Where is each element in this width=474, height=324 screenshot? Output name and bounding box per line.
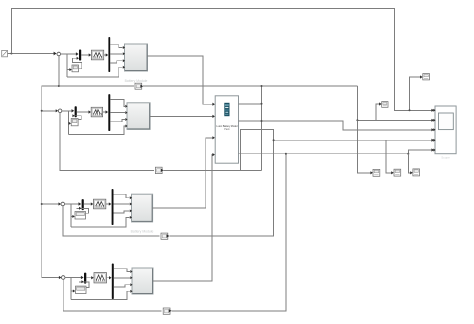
wire D1 out1	[110, 45, 123, 48]
wire D1 out2	[110, 53, 123, 55]
wire J1 to mux M1	[61, 52, 79, 55]
wire tap1 bus	[143, 85, 357, 87]
goto tag GC1	[373, 169, 380, 176]
wire port4 S3	[71, 217, 130, 226]
node at x11.4	[10, 53, 12, 55]
wire Z2 to M2	[72, 114, 81, 119]
wire into delay Z4	[71, 290, 75, 293]
wire D2 out2	[110, 112, 125, 114]
goto tag GC2	[394, 169, 401, 176]
scope SC1	[433, 106, 456, 154]
wire branch goto GB	[376, 102, 382, 120]
wire LUT1 to demux D1	[104, 53, 109, 56]
wire D3 out3	[114, 211, 130, 213]
wire into delay Z3	[71, 215, 75, 218]
subsystem S2	[125, 103, 150, 130]
wire S2 out to U1 p2	[150, 115, 215, 118]
wire S3 out to U1 p3	[153, 136, 215, 208]
rate tag RT3	[161, 233, 169, 239]
subsystem S3	[130, 194, 153, 222]
goto tag GC3	[413, 169, 420, 176]
wire D3 out1	[114, 194, 130, 198]
wire feed delay Z3	[70, 204, 72, 227]
goto tag GB	[382, 102, 388, 108]
wire tap4 cont	[172, 154, 286, 311]
rate tag RT4	[163, 308, 171, 314]
label SC1	[441, 155, 450, 159]
wire M3 to LUT3	[84, 202, 94, 205]
mux M4	[84, 273, 86, 284]
wire branch goto GC1	[357, 120, 373, 174]
wire LUT2 to demux D2	[103, 110, 109, 113]
junction node J3	[61, 202, 65, 206]
wire rail to J4	[42, 276, 62, 279]
wire port4 S1	[67, 67, 123, 77]
rate tag RT2	[155, 167, 163, 173]
mux M2	[75, 106, 77, 117]
lookup table LUT3	[94, 199, 106, 209]
wire feed delay Z1	[66, 54, 68, 77]
wire J2 tap	[60, 112, 154, 171]
wire branch goto GC2	[386, 140, 394, 174]
wire tap2 cont	[164, 169, 262, 171]
junction node J2	[58, 109, 62, 113]
mux M1	[79, 50, 81, 61]
demux D3	[112, 189, 114, 225]
wire rail left	[41, 86, 43, 278]
demux D1	[108, 37, 110, 72]
wire port4 S2	[69, 126, 126, 134]
lookup table LUT1	[91, 50, 103, 60]
wire D4 out1	[114, 269, 130, 272]
demux D2	[108, 94, 110, 131]
wire J4 to mux M4	[65, 276, 84, 279]
wire tap3 cont	[169, 129, 273, 236]
delay block Z1	[72, 65, 79, 72]
wire LUT3 to demux D3	[106, 202, 112, 205]
wire J3 tap	[63, 206, 160, 236]
wire rail J1-drop	[58, 54, 60, 87]
wire top bus	[11, 8, 434, 112]
wire J2 to mux M2	[62, 109, 74, 112]
wire feed delay Z2	[68, 111, 70, 135]
wire source to J1	[8, 52, 57, 56]
wire scope p4	[273, 139, 434, 142]
wire S4 out to U1 p4	[153, 153, 215, 281]
delay block Z4	[76, 286, 87, 293]
wire S1 out to U1 p1	[148, 56, 216, 106]
delay block Z3	[75, 212, 86, 220]
label S1	[125, 79, 148, 83]
wire Z3 to M3	[76, 207, 88, 213]
wire tap bus y86	[42, 85, 134, 87]
wire D2 out1	[110, 99, 125, 106]
mux M3	[82, 199, 84, 210]
lookup table LUT2	[91, 107, 102, 117]
junction node J1	[57, 52, 61, 56]
svg-text:Battery Module: Battery Module	[125, 79, 148, 83]
wire M2 to LUT2	[77, 110, 91, 113]
wire M4 to LUT4	[86, 276, 94, 279]
wire port4 S4	[71, 291, 130, 299]
wire J3 to mux M3	[65, 202, 82, 205]
wire D4 out2	[114, 277, 130, 279]
subsystem S4	[130, 268, 153, 294]
wire branch to goto GA	[409, 75, 423, 111]
label S3	[131, 230, 154, 234]
svg-text:Battery Module: Battery Module	[131, 230, 154, 234]
wire LUT4 to demux D4	[107, 276, 112, 279]
wire U1 r2 to scope p3	[239, 120, 435, 131]
wire Z1 to M1	[72, 57, 81, 69]
wire riser x261	[261, 85, 263, 170]
goto tag GA	[423, 74, 430, 80]
svg-text:Scope: Scope	[441, 155, 450, 159]
wire Z4 to M4	[79, 280, 89, 287]
demux D4	[112, 264, 114, 300]
rate tag RT1	[135, 83, 143, 89]
wire tap1 to scope p2	[356, 86, 434, 122]
wire U1 r4 to scope p5	[239, 148, 435, 154]
delay block Z2	[71, 119, 78, 126]
subsystem S1	[123, 44, 148, 71]
wire U1 r1	[239, 103, 262, 105]
wire into delay Z2	[69, 122, 71, 125]
battery model U1	[215, 96, 238, 163]
wire rail to J3	[41, 202, 61, 205]
source block In1	[2, 50, 8, 56]
wire rail to J2	[41, 109, 59, 112]
wire into delay Z1	[67, 68, 72, 71]
lookup table LUT4	[94, 273, 107, 283]
junction node J4	[61, 276, 65, 280]
wire J4 tap	[63, 279, 162, 311]
wire D3 out2	[114, 203, 130, 205]
wire feed delay Z4	[70, 278, 72, 300]
wire branch goto GC3	[408, 154, 413, 175]
wire D2 out3	[110, 120, 125, 122]
wire D4 out3	[114, 285, 130, 287]
wire D1 out3	[110, 61, 123, 63]
wire M1 to LUT1	[81, 53, 91, 56]
svg-text:Pack: Pack	[224, 128, 230, 131]
